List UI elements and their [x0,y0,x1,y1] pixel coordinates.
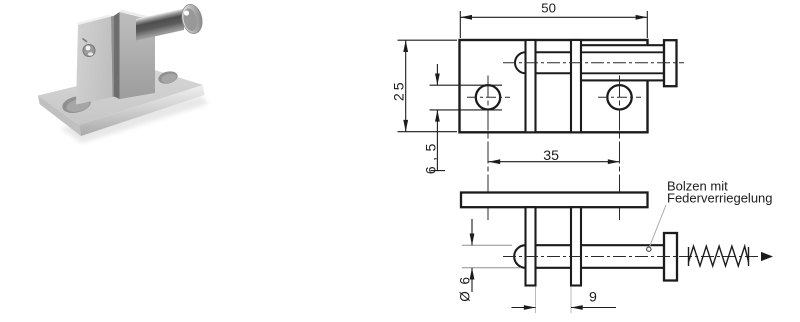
base hole left [61,93,93,115]
upright plate 1 (top view strip) [526,40,536,132]
hanger plate 2 (front view) [571,207,581,285]
dimension 9 [536,287,572,314]
pin end on left plate [83,45,95,57]
svg-text:50: 50 [541,1,556,16]
hole left vertical center line [487,76,489,221]
hole left horizontal center line [467,96,510,98]
label leader line [649,205,666,248]
hanger plate 1 (front view) [526,207,536,285]
spring with arrow [689,246,749,266]
hole right vertical center line [619,76,621,221]
dimension 50 [460,11,647,38]
bolt knob (top view) [664,40,677,86]
dimension Ø6 [462,245,521,268]
right upright plate top edge [120,10,157,22]
svg-text:9: 9 [589,290,597,306]
base hole right [157,70,179,86]
left plate right edge strip [111,16,117,97]
left upright plate front face [76,17,113,105]
svg-text:35: 35 [543,148,559,164]
gap between plates [114,12,120,99]
screw slot mark on left plate [83,39,88,43]
base plate (front view) [461,193,648,208]
base plate outline (top view 50x25) [460,40,648,132]
hole right horizontal center line [598,96,641,98]
bolt axis center line (top view) [503,62,684,64]
bolt sleeve (top view) [581,45,664,80]
right upright plate face [120,12,156,99]
pin flange head [179,2,205,35]
upright plate 2 (top view strip) [571,40,581,132]
dimension 6,5 (hole dia) [430,64,503,171]
svg-text:Federverriegelung: Federverriegelung [667,191,773,206]
hole right [607,85,631,109]
bolt rounded tip (front view) [514,245,525,268]
bolt lines between plates [526,51,582,53]
svg-text:Ø 6: Ø 6 [457,275,472,301]
svg-text:6,5: 6,5 [424,138,440,174]
dimension 25 [398,40,458,132]
svg-text:25: 25 [391,79,407,101]
bolt rounded tip [515,52,526,73]
left upright plate top edge [77,15,112,26]
bolt axis center line (front view) [503,256,758,258]
base plate left face [38,96,81,137]
base plate front face [79,85,205,136]
base plate top face [38,69,203,126]
photo soft shadow [60,96,208,143]
bolt body lines [526,244,665,246]
spring force arrow [761,252,773,261]
bolt knob (front view) [664,233,677,281]
hole left [476,85,500,109]
dimension 35 [489,161,620,163]
pin cylinder [136,9,184,41]
